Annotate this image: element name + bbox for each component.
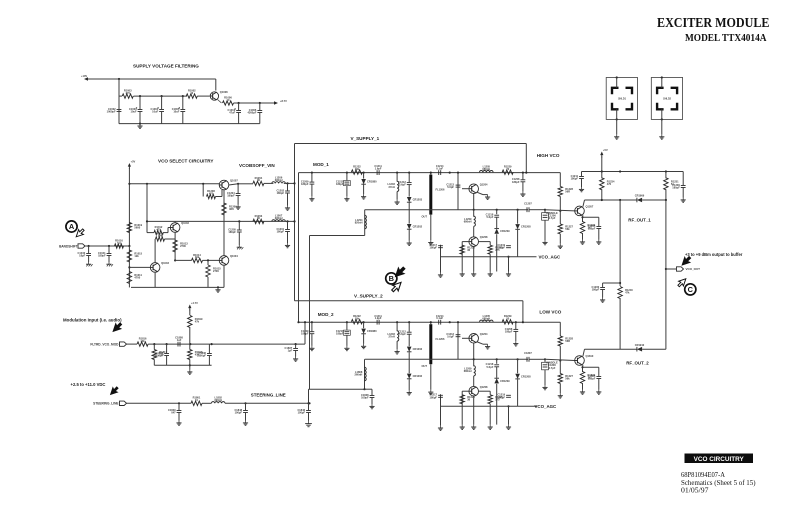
- svg-text:Q1204: Q1204: [480, 332, 488, 336]
- wire R1010 to column: [165, 238, 176, 240]
- svg-text:4300pF: 4300pF: [247, 111, 256, 115]
- ground C1829: [176, 421, 181, 426]
- capacitor C1281 series: [374, 314, 382, 325]
- wire V_SUPPLY_2 right drop: [522, 301, 524, 323]
- capacitor C1205 emitter: [588, 224, 601, 231]
- ground supply filter: [137, 124, 142, 129]
- ground R1230: [580, 240, 585, 245]
- svg-text:680nH: 680nH: [464, 369, 472, 373]
- svg-text:STEERING_LINE: STEERING_LINE: [93, 402, 118, 406]
- transistor Q1007: [219, 179, 238, 190]
- arrow marker B upper: [393, 265, 407, 279]
- node C1829 top: [178, 402, 180, 404]
- wire FL top: [430, 322, 432, 324]
- ground C1201: [285, 243, 290, 248]
- node steering riser bottom: [307, 402, 309, 404]
- ground bias column: [558, 244, 563, 249]
- svg-text:270: 270: [126, 91, 131, 95]
- node matching cap 1: [544, 209, 546, 211]
- off-page connector C: [685, 284, 696, 295]
- capacitor C1205: [228, 227, 241, 234]
- inductor L1208 shunt: [388, 331, 399, 341]
- capacitor C1217: [438, 245, 443, 247]
- svg-text:+4.7V: +4.7V: [191, 301, 198, 305]
- wire FLTRD bottom rail: [154, 364, 211, 366]
- wire steering main: [225, 402, 309, 404]
- wire CR1208 down: [517, 230, 519, 257]
- ground C1828: [369, 404, 374, 409]
- svg-text:Q1002: Q1002: [181, 221, 189, 225]
- wire Q1003 collector up: [154, 239, 156, 263]
- svg-text:180pF: 180pF: [336, 182, 344, 186]
- wire +4.7V drop: [189, 310, 191, 316]
- ground varactor column: [407, 241, 412, 246]
- svg-text:V_SUPPLY_2: V_SUPPLY_2: [354, 294, 383, 299]
- svg-text:1.9pF: 1.9pF: [375, 167, 382, 171]
- node C1230 tap: [619, 282, 621, 284]
- svg-text:2700: 2700: [180, 244, 186, 248]
- svg-text:RF_OUT_1: RF_OUT_1: [628, 218, 651, 223]
- wire C1219 col: [508, 406, 510, 424]
- ground Q1208 emitter: [485, 344, 490, 349]
- title block VCO CIRCUITRY: [685, 454, 754, 464]
- ground C1219: [309, 196, 314, 201]
- resistor R1010: [156, 231, 165, 241]
- ground C1288: [513, 341, 518, 346]
- node select rail1 left: [128, 183, 130, 185]
- wire diode down: [496, 234, 498, 271]
- node R1818 bottom tap: [189, 343, 191, 345]
- capacitor C1211 rail bypass: [571, 174, 584, 181]
- svg-text:VCOBSOFF_VIN: VCOBSOFF_VIN: [239, 163, 275, 168]
- node C1004 top: [161, 95, 163, 97]
- resistor R1203: [253, 214, 264, 224]
- arrow marker output note: [680, 255, 693, 268]
- transistor Q1218 agc: [469, 235, 488, 246]
- wire steering feed HIGH: [310, 235, 365, 237]
- wire Q1002 emitter column: [174, 232, 176, 255]
- svg-text:+3 to +9 dBm output to buffer: +3 to +9 dBm output to buffer: [685, 252, 743, 257]
- node AGC tap: [507, 405, 509, 407]
- wire cap column C1002: [118, 79, 120, 124]
- inductor L1201r: [480, 164, 494, 172]
- wire emitter node 2: [582, 367, 584, 372]
- node C1837 tap: [295, 343, 297, 345]
- svg-text:27nH: 27nH: [389, 185, 395, 189]
- wire Q1003 emitter: [154, 272, 156, 287]
- node varactor column: [408, 172, 410, 174]
- wire SHLD1 ground stem: [616, 119, 618, 134]
- capacitor C1040: [78, 251, 91, 258]
- svg-text:56k: 56k: [565, 227, 570, 231]
- resistor R1830: [580, 372, 584, 384]
- wire MOD_1 / HIGH VCO rail: [299, 172, 561, 174]
- wire CR1208 down: [517, 379, 519, 406]
- wire agc emitter: [473, 396, 475, 425]
- capacitor C1280 feedthru: [336, 329, 350, 336]
- svg-text:V_SUPPLY_1: V_SUPPLY_1: [351, 136, 380, 141]
- svg-text:SHLD2: SHLD2: [663, 98, 672, 101]
- resistor R1011: [127, 272, 131, 284]
- svg-text:047: 047: [171, 411, 176, 415]
- ground C1204: [236, 205, 241, 210]
- wire agc emitter: [473, 246, 475, 271]
- node supply A: [118, 78, 120, 80]
- inductor L1219: [464, 216, 476, 226]
- svg-text:680nH: 680nH: [482, 316, 490, 320]
- ground C1202: [285, 206, 290, 211]
- svg-text:Q1003: Q1003: [161, 261, 169, 265]
- svg-text:180pF: 180pF: [430, 395, 438, 399]
- node C1208 top: [522, 172, 524, 174]
- svg-text:10uF: 10uF: [131, 110, 137, 114]
- wire agc base stub: [462, 390, 469, 392]
- svg-text:180pF: 180pF: [227, 194, 235, 198]
- capacitor C121x col: [486, 213, 499, 220]
- wire Q1002 collector: [174, 221, 176, 222]
- resistor bias lower: [558, 224, 562, 234]
- ground R mid: [488, 272, 493, 277]
- node C1219 top: [311, 172, 313, 174]
- ground FL1208: [428, 390, 433, 395]
- svg-text:1800pF: 1800pF: [197, 354, 206, 358]
- capacitor C1041: [98, 251, 111, 258]
- wire base column x147: [146, 184, 148, 233]
- resistor R1818: [188, 350, 192, 360]
- wire bias column lower: [559, 361, 561, 374]
- diode CR1289: [494, 378, 510, 383]
- node C1041 top: [108, 245, 110, 247]
- node zener CR1880: [363, 321, 365, 323]
- inductor L1808: [355, 367, 367, 381]
- wire L1209 top: [473, 359, 475, 366]
- svg-text:MODEL TTX4014A: MODEL TTX4014A: [685, 33, 767, 44]
- wire L1204 column: [364, 210, 366, 236]
- node C1280 top: [346, 321, 348, 323]
- svg-text:5600: 5600: [134, 226, 140, 230]
- resistor R1216: [460, 245, 464, 254]
- resistor R1016: [115, 238, 124, 248]
- wire AGC to label: [518, 405, 537, 407]
- resonator FL1201: [429, 175, 432, 215]
- wire steering trunk: [309, 236, 311, 390]
- capacitor C1219 bypass: [301, 180, 314, 187]
- node osc collector: [473, 358, 475, 360]
- wire Q1008 emitter: [218, 100, 222, 104]
- svg-text:5.6pF: 5.6pF: [487, 365, 494, 369]
- varactor CR1208A: [407, 347, 423, 352]
- resistor R1212: [351, 165, 362, 175]
- svg-text:1.9pF: 1.9pF: [375, 316, 382, 320]
- transistor Q1208 oscillator: [469, 332, 488, 343]
- svg-text:Q1004: Q1004: [230, 254, 238, 258]
- resistor R1012: [154, 225, 163, 235]
- resistor R1282: [351, 314, 362, 324]
- wire bias column mid: [559, 196, 561, 211]
- wire FLTRD gnd stem: [189, 365, 191, 369]
- wire C1217 col bottom: [440, 398, 442, 425]
- ground C1211: [579, 187, 584, 192]
- node gnd FLTRD: [189, 364, 191, 366]
- node C1208 top: [515, 321, 517, 323]
- wire R1226 column: [461, 391, 463, 424]
- wire Q1004 emitter: [223, 265, 225, 287]
- arrow marker B lower: [390, 280, 404, 294]
- ground C1289: [309, 346, 314, 351]
- svg-text:680nH: 680nH: [464, 220, 472, 224]
- wire bottom rail supply filter: [119, 123, 260, 125]
- resistor R1221: [502, 165, 513, 175]
- node AGC tap: [507, 256, 509, 258]
- node C1201 top: [286, 220, 288, 222]
- ground CR1810: [361, 194, 366, 199]
- wire osc collector to lower wire: [473, 194, 475, 210]
- capacitor C1206 matching (boxed): [542, 213, 549, 221]
- svg-text:CR1203: CR1203: [413, 198, 423, 202]
- node FL rail: [430, 321, 432, 323]
- wire riser c: [665, 200, 667, 349]
- wire Q1810 emitter: [582, 365, 584, 368]
- capacitor C1808 series: [175, 336, 183, 347]
- wire SHLD2 bottom stub: [661, 109, 663, 119]
- wire V_SUPPLY_1 right drop: [525, 144, 527, 173]
- node RF1 rail b: [619, 170, 621, 172]
- node C1205 top: [238, 220, 240, 222]
- wire FLTRD in: [127, 343, 138, 345]
- wire matching cap gnd 2: [544, 370, 546, 385]
- svg-text:470: 470: [607, 182, 612, 186]
- svg-text:475: 475: [209, 191, 214, 195]
- svg-text:1pF: 1pF: [288, 349, 293, 353]
- svg-text:SUPPLY VOLTAGE FILTERING: SUPPLY VOLTAGE FILTERING: [133, 64, 199, 69]
- resistor R1231: [664, 178, 668, 190]
- wire Q1207 emitter: [582, 215, 584, 217]
- diode CR1909: [635, 194, 645, 203]
- ground C1806: [542, 385, 547, 390]
- svg-text:CR1209: CR1209: [500, 379, 510, 383]
- transistor Q1002: [170, 221, 189, 232]
- connector BANDSHIFT: [78, 244, 85, 248]
- wire C1219 col: [508, 257, 510, 272]
- wire SHLD2 ground stem: [661, 119, 663, 134]
- svg-text:Q1208: Q1208: [480, 235, 488, 239]
- varactor CR1201B: [407, 224, 423, 229]
- wire MOD_2 / LOW VCO rail: [299, 321, 561, 323]
- wire left trunk B: [298, 173, 300, 323]
- ground C1846: [305, 421, 312, 427]
- resistor R1204: [253, 176, 264, 186]
- svg-text:+8.7V: +8.7V: [280, 99, 287, 103]
- wire C1217 col top: [440, 394, 442, 406]
- svg-text:LOW VCO: LOW VCO: [539, 310, 561, 315]
- capacitor C1219b: [497, 243, 510, 250]
- node R1817 top: [153, 343, 155, 345]
- svg-text:RF_OUT_2: RF_OUT_2: [626, 361, 649, 366]
- svg-text:B: B: [389, 274, 394, 283]
- svg-text:FL1206: FL1206: [436, 337, 445, 341]
- arrow marker steering: [108, 385, 119, 396]
- node osc collector: [473, 209, 475, 211]
- wire to buffer base 2: [529, 358, 545, 360]
- capacitor C1210 feedthru: [336, 180, 350, 187]
- svg-text:CR1880: CR1880: [367, 180, 377, 184]
- node CR1208 col: [517, 358, 519, 360]
- wire osc emitter: [477, 342, 483, 344]
- svg-text:10k: 10k: [355, 317, 360, 321]
- svg-text:4700: 4700: [134, 276, 140, 280]
- capacitor C1209 out: [672, 183, 685, 190]
- svg-text:180pF: 180pF: [672, 186, 680, 190]
- wire RF1 output: [585, 199, 637, 201]
- svg-text:475: 475: [156, 227, 161, 231]
- capacitor C1004: [151, 107, 164, 114]
- node zener CR1810: [363, 172, 365, 174]
- ground C1280: [344, 346, 349, 351]
- arrow output: [274, 101, 278, 104]
- node RF1 rail c: [665, 170, 667, 172]
- resistor R1002: [186, 89, 197, 99]
- svg-text:C1807: C1807: [524, 351, 532, 355]
- wire V_SUPPLY_1: [295, 143, 527, 145]
- ground L1201: [395, 200, 400, 205]
- svg-text:18pF: 18pF: [79, 254, 85, 258]
- wire Q1007 collector out: [229, 184, 238, 185]
- capacitor C1836 shunt: [197, 351, 212, 358]
- svg-text:MOD_2: MOD_2: [318, 312, 334, 317]
- node steering riser: [308, 402, 310, 404]
- wire AGC row: [441, 405, 518, 407]
- ground C1210: [344, 196, 349, 201]
- wire osc emitter: [477, 192, 483, 194]
- wire to Q1008 base: [197, 95, 210, 97]
- ground FL1201: [428, 240, 433, 245]
- svg-text:CR1203: CR1203: [413, 347, 423, 351]
- svg-text:180pF: 180pF: [336, 332, 344, 336]
- ground varactor column: [407, 390, 412, 395]
- inductor L1201 shunt: [388, 181, 399, 191]
- svg-text:100pF: 100pF: [298, 411, 306, 415]
- wire FL top: [430, 173, 432, 175]
- wire SHLD2 top stub: [661, 78, 663, 88]
- svg-text:5.6: 5.6: [117, 241, 121, 245]
- zener CR1810: [361, 179, 377, 184]
- ground C1805: [596, 390, 601, 395]
- wire VCOBSOFF rail2: [147, 220, 295, 222]
- node trunk rail1: [293, 182, 295, 184]
- capacitor C1806 matching (boxed): [542, 362, 549, 370]
- wire base Q1207: [545, 210, 575, 211]
- resistor R1819: [188, 315, 192, 327]
- svg-text:180pF: 180pF: [592, 288, 600, 292]
- inductor L1802: [211, 396, 225, 404]
- node rail2 left: [146, 220, 148, 222]
- svg-text:56R: 56R: [565, 190, 570, 194]
- node L1201: [396, 172, 398, 174]
- off-page connector A: [66, 221, 77, 232]
- capacitor C1837: [285, 346, 298, 353]
- shield SHLD1 outer: [606, 78, 637, 120]
- capacitor C1207 coupling: [524, 201, 532, 212]
- svg-text:10k: 10k: [140, 339, 145, 343]
- wire AGC to label: [518, 256, 537, 258]
- resistor R1817: [152, 350, 156, 360]
- ground L1208: [395, 349, 400, 354]
- svg-text:390nH: 390nH: [214, 398, 222, 402]
- svg-text:10uF: 10uF: [152, 110, 158, 114]
- resistor R1015: [206, 265, 210, 277]
- arrow marker A: [74, 227, 86, 239]
- wire base Q1810: [545, 359, 575, 360]
- svg-text:CR1202: CR1202: [413, 374, 423, 378]
- wire select bottom rail: [131, 286, 224, 288]
- svg-text:180pF: 180pF: [301, 332, 309, 336]
- svg-text:MOD_1: MOD_1: [313, 162, 329, 167]
- arrow marker C: [676, 276, 688, 288]
- capacitor C1005: [172, 107, 185, 114]
- svg-text:STEERING_LINE: STEERING_LINE: [251, 393, 286, 398]
- svg-text:180pF: 180pF: [512, 180, 520, 184]
- node Q1007 base loop: [202, 183, 204, 185]
- svg-text:47uF: 47uF: [229, 111, 235, 115]
- node C1806 top: [166, 343, 168, 345]
- node C1040 top: [88, 245, 90, 247]
- capacitor C1211 series: [374, 164, 382, 175]
- ground R1286: [460, 425, 465, 430]
- ground select circuit: [215, 287, 220, 292]
- resistor R1215: [488, 245, 492, 254]
- wire R1225 top: [489, 242, 491, 246]
- capacitor C1282: [398, 330, 411, 337]
- resistor R1003: [122, 89, 133, 99]
- ground Q1201 emitter: [485, 195, 490, 200]
- node emitter R1014: [174, 259, 176, 261]
- wire V_SUPPLY_2: [295, 300, 523, 302]
- wire riser b lower: [619, 298, 621, 349]
- wire Q1007 base loop: [202, 184, 204, 197]
- resistor R1234: [600, 178, 604, 190]
- wire osc base: [462, 188, 469, 190]
- wire FLTRD main: [148, 343, 305, 345]
- resistor R1013: [173, 240, 177, 252]
- node CR1208 col: [517, 209, 519, 211]
- diode CR1218: [515, 224, 531, 229]
- node C1003 top: [139, 95, 141, 97]
- chassis ground C1041: [106, 262, 113, 266]
- node C1202 top: [286, 182, 288, 184]
- svg-text:68P81094E07-A: 68P81094E07-A: [681, 471, 726, 479]
- shield SHLD1 inner brackets: [612, 88, 632, 110]
- connector STEERING_LINE: [120, 401, 127, 405]
- svg-text:100pF: 100pF: [361, 396, 369, 400]
- node varactor column: [408, 321, 410, 323]
- wire AGC row: [441, 256, 518, 258]
- wire osc collector to lower wire: [473, 343, 475, 359]
- inductor L1204: [355, 215, 367, 229]
- node riser c top: [665, 199, 667, 201]
- wire RF1 output right: [642, 199, 666, 201]
- varactor CR1201A: [407, 197, 423, 202]
- svg-text:5.6pF: 5.6pF: [447, 335, 454, 339]
- wire bias column upper: [559, 322, 561, 336]
- wire agc base stub: [462, 241, 469, 243]
- capacitor C1003: [129, 107, 142, 114]
- capacitor C1289b: [497, 393, 510, 400]
- wire +5V drop: [601, 157, 603, 172]
- wire VCO lower: [365, 358, 528, 360]
- svg-text:180pF: 180pF: [498, 395, 506, 399]
- svg-text:180pF: 180pF: [301, 182, 309, 186]
- wire matching cap gnd 1: [544, 220, 546, 240]
